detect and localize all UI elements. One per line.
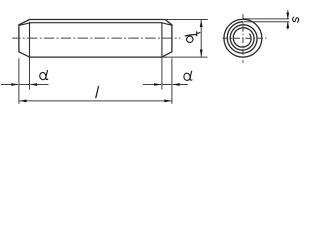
left edge [18, 25, 20, 52]
l dim arrow left [20, 100, 27, 103]
label a left [39, 71, 48, 81]
a dim left line [1, 84, 18, 86]
s extension lower [244, 21, 290, 23]
s dim arrow bottom [286, 22, 289, 29]
extension line right chamfer [161, 57, 163, 90]
end view outer circle [224, 19, 262, 57]
chamfer seam TR [162, 23, 172, 26]
a left dim arrow right [30, 83, 37, 86]
chamfer TL [19, 20, 30, 25]
a left dim arrow left [11, 83, 18, 86]
chamfer BL [19, 52, 30, 57]
chamfer boundary left [29, 22, 31, 57]
label s rotated [293, 17, 299, 22]
seam line top [31, 22, 162, 24]
bottom edge [30, 56, 162, 58]
d1 dim line [200, 20, 202, 58]
label d1 rotated [185, 32, 200, 43]
a dim right line [143, 84, 161, 86]
s extension upper [243, 18, 289, 20]
extension line right end [171, 58, 173, 104]
d1 extension bottom [162, 56, 208, 58]
d1 extension top [166, 19, 209, 21]
l dim arrow right [164, 100, 171, 103]
extension lines below [1, 10, 289, 104]
arrowheads [11, 13, 289, 103]
a right dim arrow right [173, 83, 180, 86]
chamfer seam TL [19, 23, 31, 26]
centerline side view [12, 37, 180, 39]
d1 dim arrow bottom [200, 50, 203, 57]
extension line left chamfer [29, 57, 31, 90]
chamfer BR [162, 52, 172, 57]
end view inner spiral [227, 22, 257, 53]
top edge [30, 19, 166, 21]
end view centerlines [223, 14, 267, 62]
chamfer boundary right [161, 23, 163, 57]
a right dim arrow left [154, 83, 161, 86]
s dim verticals [287, 10, 289, 19]
label a right [183, 71, 192, 81]
s dim arrow top [286, 13, 289, 20]
right edge [171, 25, 173, 52]
label l [96, 87, 99, 98]
pin body side view [19, 20, 172, 58]
chamfer TR [165, 20, 172, 25]
l dim line [19, 100, 172, 102]
d1 dim arrow top [200, 20, 203, 27]
extension line left end [18, 58, 20, 104]
